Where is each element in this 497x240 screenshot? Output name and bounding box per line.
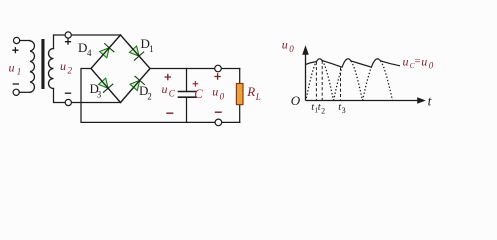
graph x-axis — [306, 100, 420, 102]
diode D4 — [100, 44, 114, 58]
wire: bottom-left terminal to primary winding — [19, 91, 30, 93]
resistor RL top lead — [239, 69, 241, 84]
rectified sine hump 2 rising edge (dotted) — [334, 67, 343, 100]
svg-text:C: C — [194, 87, 203, 101]
secondary terminal top (u2 +) — [65, 32, 71, 38]
uC polarity - — [166, 112, 173, 114]
svg-text:2: 2 — [68, 66, 73, 76]
rectified sine hump 3 falling edge (dotted) — [381, 61, 393, 101]
diode D2 — [130, 76, 144, 90]
wire: top-left terminal to primary winding — [20, 40, 30, 42]
diode D1 — [129, 46, 143, 60]
svg-text:0: 0 — [289, 44, 294, 54]
svg-text:1: 1 — [17, 67, 22, 77]
svg-text:3: 3 — [97, 90, 102, 100]
rectified sine hump 2 falling edge (dotted) — [351, 61, 363, 101]
rectified sine hump 1 falling edge (dotted) — [322, 61, 333, 101]
uo polarity - — [215, 111, 222, 113]
output voltage curve uC=uo (solid ripple) — [306, 59, 401, 67]
svg-text:t: t — [428, 93, 433, 108]
graph y-axis arrowhead — [302, 45, 309, 55]
svg-text:u: u — [282, 38, 288, 52]
bridge diamond arm wires (overlay) — [91, 35, 150, 103]
wire: secondary bottom lead to bridge bottom node — [54, 89, 121, 103]
svg-text:u: u — [9, 61, 15, 75]
resistor RL bottom lead — [239, 105, 241, 123]
svg-text:u: u — [212, 85, 218, 99]
bridge diamond wires — [91, 35, 150, 103]
rectified sine hump 3 rising edge (dotted) — [363, 67, 372, 100]
output terminal top (uo +) — [215, 65, 222, 72]
u2 polarity + — [65, 39, 71, 45]
secondary terminal bottom (u2 -) — [65, 99, 71, 105]
svg-text:D: D — [78, 40, 87, 55]
svg-text:2: 2 — [321, 106, 325, 115]
dashed marker line at t3 — [340, 68, 342, 101]
svg-text:4: 4 — [87, 48, 92, 58]
svg-text:0: 0 — [220, 92, 225, 102]
rectified sine hump 1 rising edge (dotted) — [306, 62, 316, 99]
wire: secondary top lead to bridge top node — [54, 35, 121, 49]
transformer core — [41, 39, 44, 89]
svg-text:C: C — [169, 89, 176, 99]
resistor RL body — [236, 84, 243, 105]
svg-text:u: u — [403, 55, 409, 69]
svg-text:R: R — [246, 84, 255, 99]
svg-text:O: O — [291, 93, 301, 108]
uC polarity + — [165, 74, 171, 80]
u1 polarity - — [13, 83, 19, 85]
capacitor polarity + — [193, 81, 199, 87]
svg-text:u: u — [60, 59, 66, 73]
input terminal bottom-left (u1 -) — [13, 89, 19, 95]
svg-text:0: 0 — [429, 61, 434, 71]
wire: bridge right node positive rail — [150, 68, 240, 70]
svg-text:u: u — [421, 55, 427, 69]
svg-text:u: u — [162, 82, 168, 96]
uo polarity + — [214, 73, 220, 79]
output terminal bottom (uo -) — [215, 119, 222, 126]
input terminal top-left (u1 +) — [14, 37, 20, 43]
capacitor C plates — [179, 92, 197, 98]
transformer secondary winding — [49, 49, 54, 89]
svg-text:2: 2 — [147, 91, 152, 101]
u1 polarity + — [12, 47, 18, 53]
transformer primary winding — [30, 41, 34, 93]
graph y-axis — [306, 53, 420, 101]
wire: bridge left node to negative rail — [81, 69, 240, 123]
diode D3 — [99, 78, 113, 92]
svg-text:3: 3 — [342, 106, 346, 115]
graph x-axis arrowhead — [417, 97, 426, 103]
dashed marker line at t1 — [315, 62, 317, 100]
svg-text:=: = — [414, 55, 421, 67]
svg-text:1: 1 — [149, 44, 154, 54]
svg-text:L: L — [255, 92, 261, 102]
capacitor C bottom lead — [186, 97, 188, 122]
dashed marker line at t2 — [321, 61, 323, 100]
u2 polarity - — [65, 92, 71, 94]
capacitor C top lead — [186, 69, 188, 92]
